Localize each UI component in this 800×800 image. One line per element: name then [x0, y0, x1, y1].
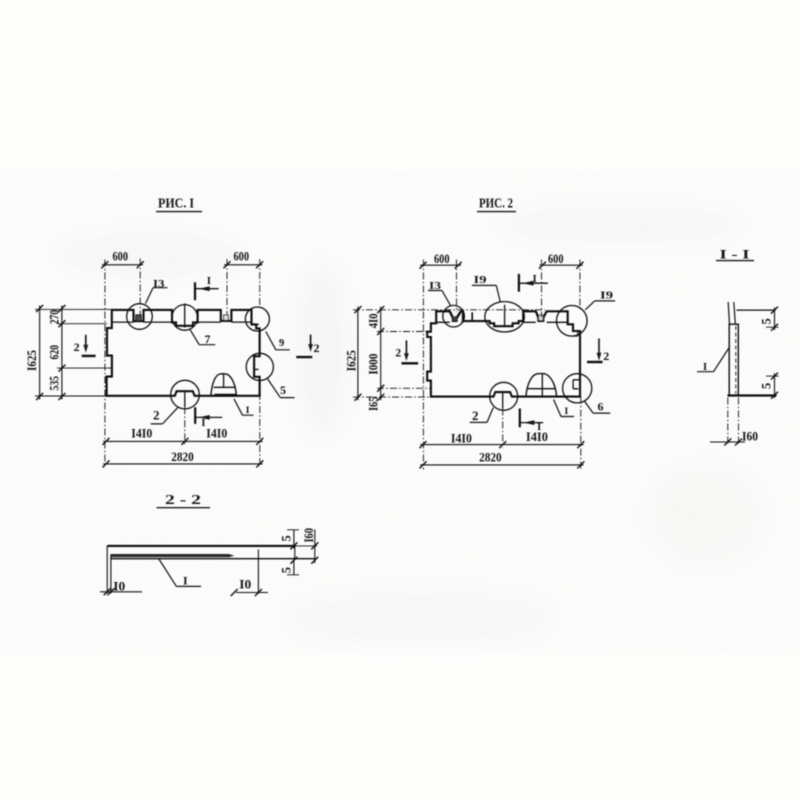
svg-text:I4I0: I4I0 — [206, 426, 227, 440]
dim 5 top section 2-2 — [279, 530, 299, 550]
section mark 2 right fig2 — [587, 339, 609, 364]
svg-text:2 - 2: 2 - 2 — [165, 492, 201, 507]
svg-text:2: 2 — [395, 348, 401, 360]
arch detail 1 fig1 — [211, 374, 237, 396]
figure 2 title РИС. 2 — [477, 196, 516, 212]
detail circle 5 — [246, 353, 273, 380]
label 2 fig2 with leader — [470, 408, 494, 423]
svg-text:I0: I0 — [113, 580, 125, 594]
dim 5 bottom section 2-2 — [279, 557, 299, 575]
V-notch walls detail 13 fig2 — [450, 312, 461, 318]
dim 600 top-right fig1 — [224, 250, 264, 269]
svg-text:2: 2 — [472, 408, 479, 423]
svg-text:I9: I9 — [600, 290, 614, 302]
joint line detail 2 — [184, 391, 186, 407]
section 1-1 title — [716, 247, 754, 261]
joint line detail 2 fig2 — [502, 392, 504, 408]
detail circle 19 mid — [485, 302, 525, 332]
extension lines horizontal left fig1 — [35, 308, 112, 310]
V-notch walls small seat fig2 — [536, 312, 546, 318]
bottom dim 1410 1410 fig1 — [103, 426, 264, 445]
svg-text:5: 5 — [280, 383, 286, 397]
left dim chain fig1: 1625 outer — [25, 305, 43, 400]
section 1-1 break lines — [728, 302, 735, 324]
svg-text:600: 600 — [548, 252, 564, 266]
svg-text:I: I — [207, 275, 211, 287]
svg-text:I60: I60 — [302, 528, 316, 543]
svg-text:I: I — [246, 406, 250, 416]
svg-text:I65: I65 — [367, 397, 381, 412]
dim 600 top-right fig2 — [539, 252, 584, 269]
extension lines horizontal left fig2 — [353, 309, 545, 311]
corner hook detail 6 — [573, 380, 580, 389]
section mark 1 bottom fig2 — [520, 409, 543, 433]
dim 600 top-left fig1 — [101, 250, 143, 269]
svg-text:535: 535 — [48, 376, 62, 391]
bottom dim 2820 fig1 — [103, 450, 264, 467]
section 2-2 title — [157, 492, 211, 508]
corner hook detail 19 right — [573, 331, 578, 336]
left dim chain fig2: 1625 outer — [344, 306, 361, 401]
svg-text:I9: I9 — [474, 274, 488, 286]
section 2-2 right end — [294, 546, 296, 559]
left dim chain fig1: 270 620 535 — [48, 305, 66, 400]
svg-text:I: I — [201, 417, 205, 429]
svg-text:I: I — [565, 407, 569, 417]
bottom dim 2820 fig2 — [420, 450, 585, 468]
svg-text:2820: 2820 — [479, 450, 502, 464]
detail 5 mid tick — [254, 368, 259, 370]
anchor square seat fig2 — [539, 315, 544, 320]
panel outline fig2 — [427, 311, 580, 396]
dim 10 left section 2-2 — [100, 580, 142, 596]
label 1 fig2 with leader — [554, 400, 574, 418]
svg-text:I - I: I - I — [720, 247, 750, 261]
svg-text:I4I0: I4I0 — [451, 432, 472, 446]
svg-text:620: 620 — [48, 345, 62, 360]
svg-text:I: I — [533, 273, 537, 285]
svg-text:I: I — [183, 574, 188, 588]
svg-text:600: 600 — [113, 250, 129, 264]
svg-text:5: 5 — [760, 383, 774, 389]
svg-text:4I0: 4I0 — [367, 313, 381, 328]
recess tab fig2 — [471, 312, 473, 321]
svg-text:PИC. I: PИC. I — [158, 196, 194, 211]
detail circle 13 — [127, 304, 153, 330]
label 1 section 1-1 with leader — [697, 348, 729, 373]
anchor square right seat — [224, 315, 229, 320]
detail circle 9 — [245, 307, 269, 331]
section mark 2 left fig2 — [395, 340, 418, 363]
section 1-1 hidden edge — [735, 326, 737, 394]
label 13 fig2 with leader — [428, 280, 451, 306]
svg-text:PИC. 2: PИC. 2 — [479, 196, 513, 211]
dim 600 top-left fig2 — [420, 252, 462, 269]
label 6 with leader — [584, 400, 610, 414]
svg-text:2: 2 — [74, 340, 80, 354]
label 13 with leader — [146, 278, 168, 304]
detail 9 nose tick — [256, 323, 259, 325]
arch detail 1 fig2 — [526, 374, 557, 397]
detail circle 6 — [563, 374, 592, 403]
label 7 with leader — [190, 329, 215, 346]
svg-text:9: 9 — [279, 338, 284, 349]
svg-text:I0: I0 — [239, 578, 251, 592]
section mark 1 top fig1 — [195, 275, 219, 300]
panel outline fig1 — [107, 310, 260, 396]
svg-text:600: 600 — [234, 250, 250, 264]
extension lines vertical bottom fig2 — [502, 409, 504, 449]
dim 10 right section 2-2 — [231, 578, 268, 597]
top band inner line fig1 — [112, 321, 251, 323]
dim 160 section 2-2 — [296, 528, 319, 564]
svg-text:2: 2 — [314, 341, 320, 355]
section 1-1 bottom flange — [728, 394, 777, 396]
label 9 with leader — [266, 332, 290, 350]
section 2-2 bottom line — [111, 558, 317, 560]
extension lines vertical top fig1 — [104, 260, 106, 468]
extension lines vertical top fig2 — [422, 260, 424, 470]
label 19 mid with leader — [472, 274, 500, 302]
detail circle 19 right — [557, 306, 588, 337]
section 1-1 top edge line — [737, 309, 776, 311]
svg-text:I4I0: I4I0 — [526, 430, 548, 444]
detail circle 2 — [171, 380, 200, 409]
detail circle 7 — [172, 305, 198, 331]
svg-text:600: 600 — [434, 252, 450, 266]
section 1-1 plate — [729, 324, 738, 395]
section mark 1 top fig2 — [519, 273, 548, 292]
anchor square detail 13 — [136, 315, 142, 321]
section 2-2 top line — [107, 545, 295, 547]
dim 160 section 1-1 — [710, 398, 758, 446]
extension lines vertical bottom fig1 — [184, 407, 186, 445]
label 19 right with leader — [585, 290, 615, 310]
label 1 section 2-2 with leader — [159, 559, 201, 588]
joint line detail 7 — [184, 303, 186, 327]
svg-text:5: 5 — [279, 567, 293, 573]
dim 5 bottom section 1-1 — [760, 373, 779, 399]
label 2 with leader — [151, 407, 178, 424]
section mark 2 right fig1 — [296, 335, 319, 358]
svg-text:6: 6 — [598, 400, 604, 414]
svg-text:I60: I60 — [742, 430, 758, 444]
bottom dim 1410 1410 fig2 — [420, 430, 585, 448]
embedded plate item 1 — [111, 554, 234, 557]
joint line detail 19 mid — [504, 305, 506, 326]
svg-text:2: 2 — [153, 408, 160, 423]
svg-text:I000: I000 — [367, 354, 381, 375]
svg-text:5: 5 — [279, 535, 293, 541]
detail circle 2 fig2 — [490, 382, 518, 410]
label 1 arch with leader — [234, 399, 254, 416]
dim 5 top section 1-1 — [760, 307, 779, 331]
section mark 1 bottom fig1 — [195, 407, 222, 429]
top band inner line fig2 — [436, 321, 568, 323]
svg-text:2820: 2820 — [171, 450, 194, 464]
left dim chain fig2: 410 1000 165 — [367, 306, 385, 411]
svg-text:I625: I625 — [25, 350, 39, 371]
section 2-2 mid vertical — [257, 550, 259, 594]
svg-text:I625: I625 — [344, 350, 358, 371]
svg-text:270: 270 — [48, 310, 62, 325]
section 2-2 left end lines — [107, 546, 111, 594]
svg-text:2: 2 — [603, 349, 609, 363]
figure 1 title РИС. 1 — [156, 196, 202, 212]
scan grain band — [0, 170, 800, 650]
detail circle 13 fig2 — [443, 305, 465, 327]
svg-text:I4I0: I4I0 — [131, 426, 152, 440]
svg-text:5: 5 — [760, 318, 774, 324]
section mark 2 left fig1 — [74, 335, 96, 356]
label 5 with leader — [268, 379, 295, 398]
